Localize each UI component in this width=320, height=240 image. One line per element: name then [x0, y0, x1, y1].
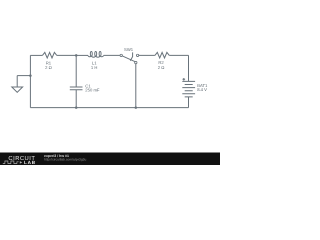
CircuitLab logo waveform — [3, 161, 19, 164]
svg-text:LAB: LAB — [24, 160, 36, 165]
inductor L1 base wire — [88, 56, 104, 58]
svg-text:2 Ω: 2 Ω — [158, 65, 165, 70]
wire L1 to SW1 — [104, 54, 120, 56]
wire top rail left segment — [30, 54, 42, 56]
ground symbol triangle — [12, 87, 23, 92]
switch SW1 right terminal circle — [136, 54, 138, 56]
junction dot SW1 bottom — [135, 106, 138, 109]
junction dot C1 bottom — [75, 106, 78, 109]
wire R2 to right rail — [169, 54, 188, 56]
capacitor C1 plates — [70, 87, 83, 90]
wire SW1 bottom lead — [135, 64, 137, 108]
node A junction dot — [75, 54, 78, 57]
inductor L1 loops — [90, 51, 92, 56]
footer bar — [0, 153, 220, 166]
capacitor C1 top lead — [75, 55, 77, 87]
svg-text:2 Ω: 2 Ω — [45, 65, 52, 70]
svg-text:http://circuitlab.com/c/qe3g3u: http://circuitlab.com/c/qe3g3u — [44, 157, 86, 161]
resistor R2 — [155, 52, 169, 58]
switch SW1 actuator mark — [130, 52, 132, 60]
svg-text:250 mF: 250 mF — [85, 88, 100, 93]
resistor R1 — [42, 52, 56, 58]
CircuitLab logo arrow — [20, 161, 22, 164]
wire ground tap — [17, 75, 30, 77]
svg-text:SW1: SW1 — [124, 47, 134, 52]
wire bottom rail — [30, 107, 188, 109]
capacitor C1 bottom lead — [75, 90, 77, 108]
wire SW1 to R2 — [139, 54, 155, 56]
wire left rail — [29, 55, 31, 107]
wire battery bottom lead — [188, 97, 190, 108]
svg-text:8.4 V: 8.4 V — [197, 87, 207, 92]
junction dot ground — [29, 74, 32, 77]
battery BAT1 plates — [182, 81, 195, 97]
wire node A to L1 — [76, 54, 88, 56]
battery BAT1 plus sign — [183, 78, 186, 81]
wire right rail top (battery top lead) — [188, 55, 190, 81]
wire R1 to node A — [57, 54, 76, 56]
switch SW1 bottom terminal circle — [135, 61, 137, 63]
switch SW1 lever — [122, 56, 135, 62]
switch SW1 left terminal circle — [120, 54, 122, 56]
svg-text:1 H: 1 H — [91, 65, 98, 70]
wire ground drop — [16, 76, 18, 87]
